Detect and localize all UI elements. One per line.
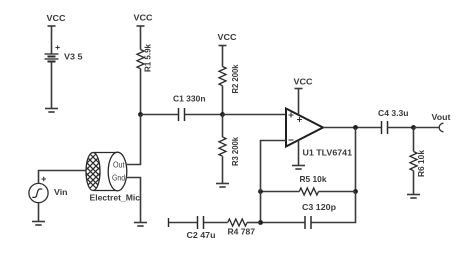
resistor R5 [299,188,318,195]
ground (battery V3) [45,109,58,113]
wire C4 to node D [388,127,414,129]
svg-text:R4 787: R4 787 [228,227,256,237]
wire node D to R6 [413,128,415,152]
power symbol VCC (U1) [295,88,303,90]
ground (R3) [216,184,229,188]
wire node E down to C3 [311,192,356,223]
wire VCC to U1 positive supply pin [298,89,300,116]
power symbol VCC (R1) [137,25,145,27]
wire battery V3 to ground [51,62,53,109]
svg-text:V3 5: V3 5 [64,52,83,62]
junction node B [220,112,225,117]
resistor R2 [219,67,226,86]
svg-text:U1 TLV6741: U1 TLV6741 [303,148,353,158]
wire mic Gnd pin to ground [126,178,140,223]
wire U1 output to node C [323,127,382,129]
wire mic Out pin to node A [126,115,140,165]
junction node G [258,220,263,225]
wire R5 to node F [261,191,300,193]
svg-text:VCC: VCC [294,77,313,87]
power symbol VCC (R2) [219,45,227,47]
ground (Vin) [32,222,45,226]
wire VCC to R1 [140,26,142,50]
wire VCC to R2 [222,46,224,67]
resistor R1 [137,50,144,69]
svg-text:C3 120p: C3 120p [302,202,336,212]
power symbol VCC (battery V3) [48,25,56,27]
wire R4 to C2 [204,222,228,224]
junction node F [258,189,263,194]
svg-text:R2 200k: R2 200k [230,64,240,93]
wire VCC to battery V3 [51,26,53,54]
wire Vin to ground [38,203,40,222]
terminal Vout [439,123,443,132]
wire node G to R4 [247,222,261,224]
svg-text:Vin: Vin [54,187,68,197]
svg-text:Gnd: Gnd [112,173,125,183]
wire node F to node G [260,192,262,223]
junction node E [353,189,358,194]
svg-text:C4 3.3u: C4 3.3u [378,108,409,118]
voltage source Vin [29,183,48,202]
wire C3 to node G [261,222,306,224]
svg-text:VCC: VCC [134,13,153,23]
wire node B to op-amp noninverting input [223,114,287,116]
wire C1 to node B [185,114,223,116]
wire R3 to ground [222,156,224,183]
resistor R3 [219,137,226,156]
svg-text:Electret_Mic: Electret_Mic [90,193,141,203]
capacitor C3 [305,216,311,229]
capacitor C2 [198,216,204,229]
Vin plus marker [42,177,47,182]
capacitor C1 [179,108,185,121]
svg-text:R6 10k: R6 10k [416,150,426,177]
ground (R6) [407,195,420,199]
wire Vin to microphone [39,171,87,184]
svg-text:R3 200k: R3 200k [230,137,240,166]
open terminal tick (C2 left) [168,218,170,227]
battery V3 [45,54,59,62]
capacitor C4 [382,121,388,134]
svg-text:Vout: Vout [432,112,451,122]
wire node D to Vout terminal [414,127,440,129]
wire R2 to node B [222,86,224,115]
wire node C to node E (feedback) [355,128,357,192]
svg-text:C1 330n: C1 330n [173,94,206,104]
svg-text:R1 5.9k: R1 5.9k [143,44,153,72]
svg-text:R5 10k: R5 10k [300,174,327,184]
wire node B to R3 [222,115,224,138]
junction node A [138,112,143,117]
op-amp U1 TLV6741 [286,109,323,147]
resistor R4 [228,219,247,226]
svg-text:Out: Out [113,160,125,170]
battery plus marker [56,45,60,49]
wire R1 to node A [140,69,142,115]
microphone Electret_Mic [74,133,127,191]
svg-text:VCC: VCC [218,32,237,42]
svg-text:C2 47u: C2 47u [187,230,216,240]
wire R6 to ground [413,171,415,195]
junction node C [353,125,358,130]
ground (mic) [134,223,147,227]
svg-text:VCC: VCC [47,13,66,23]
wire C2 to open terminal [169,222,198,224]
ground (U1) [292,166,305,170]
wire node F to U1 inverting input [261,141,287,192]
wire U1 negative supply pin to ground [298,140,300,166]
junction node D [411,125,416,130]
wire node E to R5 [319,191,356,193]
wire node A to C1 [141,114,179,116]
resistor R6 [410,152,417,171]
